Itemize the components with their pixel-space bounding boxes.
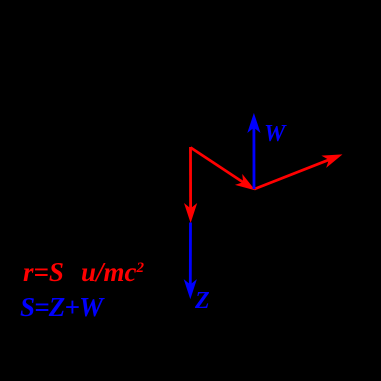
red vector (vertical, downward) <box>185 147 196 222</box>
blue vector W (vertical, upward) <box>248 115 259 190</box>
svg-text:r=S: r=S <box>23 257 64 287</box>
svg-text:u/mc2: u/mc2 <box>81 257 145 287</box>
red vector u (diagonal, up-right) <box>255 155 342 189</box>
blue vector Z (vertical, downward) <box>185 223 196 298</box>
svg-text:S=Z+W: S=Z+W <box>20 292 105 322</box>
svg-text:Z: Z <box>194 288 210 314</box>
svg-text:W: W <box>264 121 287 147</box>
red vector (diagonal to junction) <box>191 148 255 190</box>
